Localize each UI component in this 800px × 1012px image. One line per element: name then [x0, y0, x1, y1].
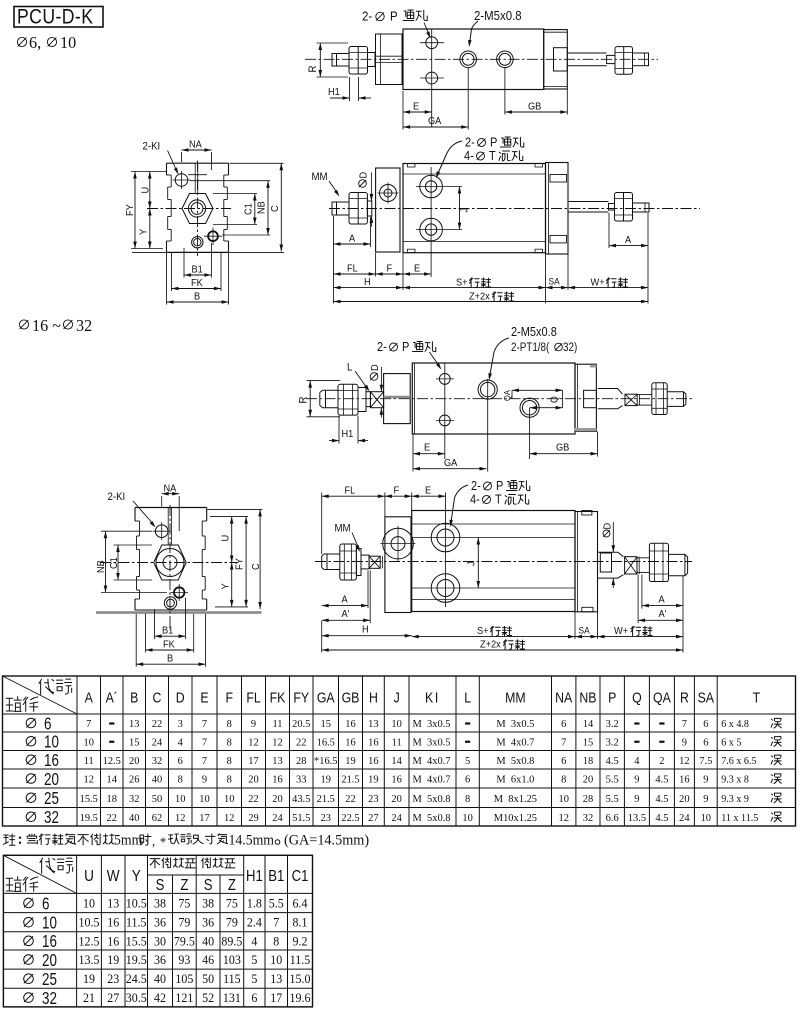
svg-text:2-M5x0.8: 2-M5x0.8	[474, 8, 522, 23]
svg-text:17: 17	[199, 812, 210, 824]
svg-text:10: 10	[224, 793, 234, 805]
svg-text:19.5: 19.5	[80, 812, 98, 824]
drawing2b front plate	[376, 168, 400, 252]
svg-text:M 5x0.8: M 5x0.8	[413, 793, 451, 805]
svg-text:NA: NA	[189, 139, 202, 151]
svg-text:2-: 2-	[362, 9, 372, 24]
svg-text:16: 16	[368, 736, 379, 748]
svg-text:24: 24	[391, 812, 402, 824]
svg-text:U: U	[220, 535, 232, 542]
svg-text:M 3x0.5: M 3x0.5	[413, 736, 451, 748]
svg-text:3.2: 3.2	[606, 736, 619, 748]
drawing1 rod bushing	[554, 48, 568, 71]
svg-text:FL: FL	[347, 263, 358, 275]
svg-text:H1: H1	[328, 87, 340, 99]
svg-text:F: F	[394, 485, 400, 497]
svg-text:C1: C1	[292, 868, 309, 885]
drawing3 right thread tip	[667, 392, 686, 407]
drawing2b washer boss	[367, 201, 371, 216]
svg-text:NB: NB	[96, 560, 108, 573]
svg-text:22: 22	[107, 812, 117, 824]
svg-text:40: 40	[154, 972, 166, 987]
svg-text:T: T	[489, 149, 496, 163]
svg-text:E: E	[413, 101, 420, 113]
svg-text:27: 27	[107, 991, 119, 1006]
svg-text:42: 42	[154, 991, 166, 1006]
svg-text:12.5: 12.5	[103, 755, 121, 767]
svg-text:S: S	[156, 877, 165, 894]
svg-text:26: 26	[129, 773, 140, 785]
drawing2b rod nuts	[349, 193, 367, 225]
svg-text:38: 38	[202, 896, 214, 911]
svg-text:62: 62	[152, 812, 162, 824]
svg-text:C1: C1	[109, 557, 121, 569]
drawing1 end cap	[544, 30, 568, 89]
drawing2b centerline	[329, 208, 700, 210]
svg-text:8: 8	[227, 773, 232, 785]
dimension GA d3	[413, 468, 487, 470]
svg-text:FY: FY	[234, 558, 246, 570]
svg-text:C1: C1	[243, 203, 255, 215]
svg-text:16: 16	[345, 736, 356, 748]
svg-text:22: 22	[345, 793, 355, 805]
svg-text:40: 40	[202, 934, 214, 949]
dimension B d2	[166, 252, 168, 304]
svg-text:15.5: 15.5	[80, 793, 98, 805]
drawing2b end cap	[546, 163, 569, 255]
svg-text:6: 6	[703, 736, 709, 748]
dimension A left d5	[367, 571, 369, 609]
dimension QA d3	[511, 390, 513, 398]
svg-text:Q: Q	[632, 690, 642, 706]
dimension C d2	[230, 162, 284, 164]
svg-text:D: D	[602, 523, 614, 530]
svg-text:19: 19	[83, 972, 95, 987]
svg-text:A: A	[342, 594, 349, 606]
svg-text:FK: FK	[163, 639, 175, 651]
svg-text:B: B	[194, 291, 201, 303]
drawing4 body outline	[135, 507, 207, 509]
svg-text:20: 20	[129, 755, 139, 767]
svg-text:FK: FK	[270, 690, 286, 706]
svg-text:20: 20	[44, 770, 59, 789]
svg-text:M 5x0.8: M 5x0.8	[496, 755, 534, 767]
drawing3 washer	[358, 388, 366, 412]
svg-text:20.5: 20.5	[292, 718, 310, 730]
svg-text:43.5: 43.5	[292, 793, 310, 805]
svg-text:32: 32	[42, 989, 57, 1008]
svg-text:R: R	[308, 66, 320, 73]
drawing1 washer	[368, 53, 376, 67]
drawing4 bottom thick hole	[174, 587, 184, 597]
drawing2b plate hole	[380, 185, 397, 202]
svg-text:6: 6	[178, 755, 184, 767]
dimension S+stroke d2b	[545, 253, 547, 303]
svg-text:89.5: 89.5	[221, 934, 242, 949]
svg-text:9.3 x 9: 9.3 x 9	[721, 793, 749, 804]
svg-text:17: 17	[270, 991, 282, 1006]
svg-text:W: W	[107, 868, 120, 885]
svg-text:NA: NA	[555, 690, 572, 706]
svg-text:16: 16	[679, 773, 690, 785]
big table grid	[2, 676, 4, 826]
svg-text:D: D	[358, 172, 370, 179]
dimension W+stroke d5	[598, 636, 684, 638]
svg-text:7: 7	[273, 915, 279, 930]
svg-text:A': A'	[342, 609, 350, 621]
dimension Y d2	[149, 209, 151, 249]
svg-text:24.5: 24.5	[126, 972, 147, 987]
svg-text:4: 4	[251, 934, 258, 949]
svg-text:4.5: 4.5	[655, 773, 668, 785]
dimension B d4	[135, 614, 137, 667]
svg-text:T: T	[495, 493, 502, 507]
svg-text:22.5: 22.5	[341, 812, 359, 824]
svg-text:5: 5	[251, 972, 257, 987]
title box PCU-D-K	[14, 7, 103, 28]
drawing1 right rod	[567, 52, 606, 54]
svg-text:2-KI: 2-KI	[143, 141, 161, 153]
svg-text:KI: KI	[425, 690, 440, 706]
svg-text:L: L	[464, 690, 471, 706]
svg-text:19: 19	[321, 773, 331, 785]
svg-text:21.5: 21.5	[317, 793, 335, 805]
svg-text:8: 8	[273, 934, 279, 949]
svg-text:12: 12	[679, 755, 689, 767]
dimension FY d4	[245, 517, 247, 607]
svg-text:4: 4	[178, 736, 184, 748]
drawing5 right rod thin	[637, 557, 649, 559]
svg-text:7: 7	[202, 736, 208, 748]
svg-text:10: 10	[391, 718, 401, 730]
drawing2b cylinder body	[403, 164, 546, 253]
svg-text:W+: W+	[591, 277, 605, 289]
svg-text:30.5: 30.5	[126, 991, 147, 1006]
svg-text:6: 6	[42, 895, 49, 914]
svg-text:4: 4	[634, 755, 640, 767]
svg-text:23: 23	[107, 972, 119, 987]
dimension F d5	[411, 493, 413, 511]
small table grid	[2, 855, 4, 1007]
svg-text:M 3x0.5: M 3x0.5	[496, 718, 534, 730]
svg-text:11: 11	[392, 736, 402, 748]
svg-text:5.5: 5.5	[606, 793, 619, 805]
svg-text:B1: B1	[268, 868, 284, 885]
svg-text:15.0: 15.0	[290, 972, 311, 987]
dimension NA d4	[161, 496, 163, 507]
drawing2 vertical thread lines	[194, 163, 196, 193]
svg-text:E: E	[425, 485, 432, 497]
drawing1 P through-holes	[426, 37, 438, 49]
svg-text:P: P	[496, 479, 503, 493]
dimension A right d2b	[608, 213, 610, 248]
drawing3 right coupler box	[625, 394, 637, 405]
drawing2b right rod	[568, 201, 609, 203]
dimension H d5	[322, 635, 412, 637]
dimension F d2b	[402, 253, 404, 290]
drawing5 right rod large	[598, 552, 624, 578]
dimension Z+2x stroke d2b	[334, 301, 649, 303]
dimension FY d2	[131, 171, 167, 173]
svg-text:10: 10	[462, 812, 472, 824]
svg-text:6 x 4.8: 6 x 4.8	[721, 719, 749, 730]
svg-text:20: 20	[391, 793, 401, 805]
drawing4 bottom thick base line	[96, 611, 262, 614]
svg-text:20: 20	[248, 773, 258, 785]
dimension FK d4	[145, 614, 147, 653]
svg-text:24: 24	[679, 812, 690, 824]
drawing2 KI hole	[175, 174, 188, 187]
drawing3 centerline	[306, 398, 692, 400]
drawing5 end cap	[575, 512, 598, 612]
svg-text:Y: Y	[220, 583, 232, 590]
svg-text:12: 12	[224, 812, 234, 824]
svg-text:(GA=14.5mm): (GA=14.5mm)	[284, 832, 369, 848]
svg-text:GB: GB	[556, 442, 570, 454]
drawing1 right rod nuts	[615, 47, 633, 75]
svg-text:H: H	[364, 277, 371, 289]
svg-text:A: A	[659, 594, 666, 606]
svg-text:M 4x0.7: M 4x0.7	[496, 736, 535, 748]
svg-text:32: 32	[129, 793, 139, 805]
dimension R	[317, 42, 349, 44]
svg-text:9: 9	[703, 793, 708, 805]
svg-text:4.5: 4.5	[655, 793, 668, 805]
svg-text:E: E	[414, 263, 421, 275]
svg-text:16.5: 16.5	[317, 736, 335, 748]
svg-text:25: 25	[44, 790, 59, 809]
svg-text:6.4: 6.4	[293, 896, 309, 911]
svg-text:36: 36	[154, 953, 166, 968]
svg-text:9: 9	[703, 773, 708, 785]
drawing3 rod nut	[338, 384, 358, 415]
svg-text:GB: GB	[528, 101, 542, 113]
svg-text:22: 22	[248, 793, 258, 805]
svg-text:MM: MM	[335, 523, 351, 535]
svg-text:GA: GA	[428, 116, 442, 128]
drawing2 center hexagon	[182, 194, 213, 224]
drawing3 right nut	[652, 383, 667, 415]
svg-text:13: 13	[368, 718, 378, 730]
drawing1 hole vertical line	[431, 29, 433, 127]
svg-text:W+: W+	[614, 626, 628, 638]
svg-text:6: 6	[251, 991, 257, 1006]
dimension Q d3	[562, 390, 564, 407]
svg-text:SA: SA	[549, 276, 560, 287]
dimension Y d4	[215, 606, 248, 608]
svg-text:7: 7	[202, 755, 208, 767]
svg-text:12: 12	[248, 736, 258, 748]
svg-text:79.5: 79.5	[174, 934, 195, 949]
drawing5 rod thread tip	[322, 554, 340, 570]
drawing2b right thread tip	[633, 203, 650, 212]
svg-text:12: 12	[558, 812, 568, 824]
svg-text:L: L	[347, 362, 353, 374]
drawing3 end cap	[575, 364, 596, 431]
svg-text:R: R	[680, 690, 689, 706]
svg-text:U: U	[140, 187, 152, 194]
svg-text:A: A	[85, 690, 93, 706]
dimension H1 d3	[338, 416, 340, 444]
svg-text:20: 20	[272, 793, 282, 805]
drawing5 centerline	[315, 561, 692, 563]
note line	[3, 834, 15, 845]
svg-text:8.1: 8.1	[293, 915, 308, 930]
svg-text:16: 16	[391, 773, 402, 785]
svg-text:9: 9	[202, 773, 207, 785]
svg-text:6: 6	[44, 715, 51, 734]
svg-text:J: J	[459, 208, 471, 213]
dimension S+stroke d5	[574, 612, 576, 639]
svg-text:M10x1.25: M10x1.25	[494, 812, 537, 824]
drawing2 centerlines	[197, 161, 199, 257]
svg-text:20: 20	[679, 793, 689, 805]
drawing3 rod section	[366, 392, 370, 407]
drawing5 front plate	[385, 517, 411, 613]
drawing2b right nuts	[615, 193, 633, 222]
svg-text:Y: Y	[132, 868, 141, 885]
svg-text:15: 15	[583, 736, 593, 748]
svg-text:H1: H1	[342, 429, 354, 441]
svg-text:H: H	[362, 624, 369, 636]
svg-text:14: 14	[107, 773, 118, 785]
svg-text:E: E	[424, 442, 431, 454]
svg-text:B: B	[167, 653, 174, 665]
svg-text:*: *	[160, 834, 166, 850]
drawing1 collar block	[376, 34, 403, 85]
svg-text:3: 3	[178, 718, 183, 730]
drawing5 right nut	[649, 543, 668, 581]
drawing1 rod nuts	[349, 47, 368, 75]
drawing5 rod nut	[340, 544, 357, 580]
svg-text:F: F	[225, 690, 233, 706]
svg-text:13: 13	[270, 972, 282, 987]
svg-text:19.6: 19.6	[290, 991, 311, 1006]
dimension GB d3	[597, 432, 599, 457]
drawing5 washer	[356, 549, 361, 576]
svg-text:10: 10	[558, 793, 568, 805]
drawing3 rod thread tip	[320, 390, 338, 408]
svg-text:1.8: 1.8	[247, 896, 262, 911]
dimension E d2b	[403, 273, 431, 275]
svg-text:B1: B1	[192, 264, 204, 276]
dimension FL d5	[321, 493, 323, 555]
svg-text:30: 30	[154, 934, 166, 949]
svg-text:2.4: 2.4	[247, 915, 263, 930]
drawing2 bottom thick hole	[208, 231, 218, 241]
drawing5 rod bushing	[600, 553, 611, 572]
drawing4 center bore circles	[156, 549, 184, 577]
svg-text:19: 19	[345, 755, 355, 767]
svg-text:7: 7	[202, 718, 208, 730]
svg-text:*16.5: *16.5	[314, 755, 337, 767]
svg-text:P: P	[402, 340, 409, 354]
svg-text:MM: MM	[505, 690, 526, 706]
svg-text:11 x 11.5: 11 x 11.5	[721, 812, 758, 823]
dimension H1	[349, 77, 351, 101]
svg-text:13.5: 13.5	[628, 812, 646, 824]
svg-text:7.5: 7.5	[699, 755, 712, 767]
svg-text:PCU-D-K: PCU-D-K	[17, 5, 93, 29]
svg-text:27: 27	[368, 812, 379, 824]
svg-text:P: P	[390, 9, 398, 24]
svg-text:36: 36	[154, 915, 166, 930]
drawing2 center bore circles	[188, 200, 205, 217]
svg-text:9: 9	[634, 773, 639, 785]
svg-text:M 4x0.7: M 4x0.7	[413, 755, 452, 767]
svg-text:15: 15	[321, 718, 331, 730]
svg-text:B: B	[130, 690, 138, 706]
svg-text:8: 8	[178, 773, 183, 785]
svg-text:40: 40	[152, 773, 162, 785]
svg-text:52: 52	[202, 991, 214, 1006]
big table diagonal header cell	[3, 676, 78, 714]
svg-text:GA: GA	[444, 458, 458, 470]
svg-text:9.2: 9.2	[293, 934, 308, 949]
svg-text:75: 75	[178, 896, 190, 911]
drawing1 piston rod thread tip	[332, 54, 349, 67]
svg-text:QA: QA	[503, 390, 513, 401]
svg-text:4-: 4-	[470, 493, 480, 507]
dimension SA d5	[597, 612, 599, 639]
svg-text:8: 8	[561, 773, 566, 785]
svg-text:B1: B1	[162, 625, 174, 637]
svg-text:25: 25	[42, 971, 57, 990]
svg-text:23: 23	[368, 793, 378, 805]
dimension W+stroke d2b	[568, 287, 648, 289]
svg-text:6 x 5: 6 x 5	[721, 737, 741, 748]
dimension Aprime left d5	[369, 571, 371, 624]
svg-text:Z: Z	[180, 877, 188, 894]
svg-text:M 4x0.7: M 4x0.7	[413, 773, 452, 785]
drawing5 cylinder body	[412, 511, 575, 612]
svg-text:14: 14	[391, 755, 402, 767]
svg-text:C: C	[270, 205, 282, 212]
svg-text:4.5: 4.5	[606, 755, 619, 767]
drawing5 plate hole	[383, 528, 414, 559]
svg-text:A': A'	[659, 609, 667, 621]
svg-text:79: 79	[226, 915, 238, 930]
drawing4 centerlines	[169, 505, 171, 630]
svg-text:P: P	[490, 136, 497, 150]
dimension GA top view	[467, 68, 469, 130]
svg-text:15.5: 15.5	[126, 934, 147, 949]
svg-text:5: 5	[251, 953, 257, 968]
svg-text:11.5: 11.5	[126, 915, 146, 930]
svg-text:F: F	[387, 263, 393, 275]
svg-text:16 ~: 16 ~	[32, 316, 61, 335]
drawing1 right thread tip	[633, 53, 649, 66]
svg-text:10: 10	[701, 812, 711, 824]
svg-text:19.5: 19.5	[126, 953, 147, 968]
svg-text:Z+2x: Z+2x	[480, 639, 501, 651]
dimension A right d5	[641, 575, 643, 609]
svg-text:2-: 2-	[465, 136, 475, 150]
svg-text:D: D	[176, 690, 185, 706]
svg-text:S: S	[204, 877, 213, 894]
svg-text:75: 75	[226, 896, 238, 911]
svg-text:121: 121	[175, 991, 193, 1006]
drawing5 right coupler box	[625, 557, 637, 574]
dimension B1 d2	[183, 248, 185, 278]
subtitle bore 6-10	[17, 37, 26, 46]
dimension SA d2b	[567, 255, 569, 291]
dimension C1 d4	[114, 544, 153, 546]
svg-text:22: 22	[152, 718, 162, 730]
drawing2b rod thread tip	[332, 202, 349, 215]
svg-text:NB: NB	[579, 690, 596, 706]
drawing3 cylinder body	[412, 363, 575, 434]
